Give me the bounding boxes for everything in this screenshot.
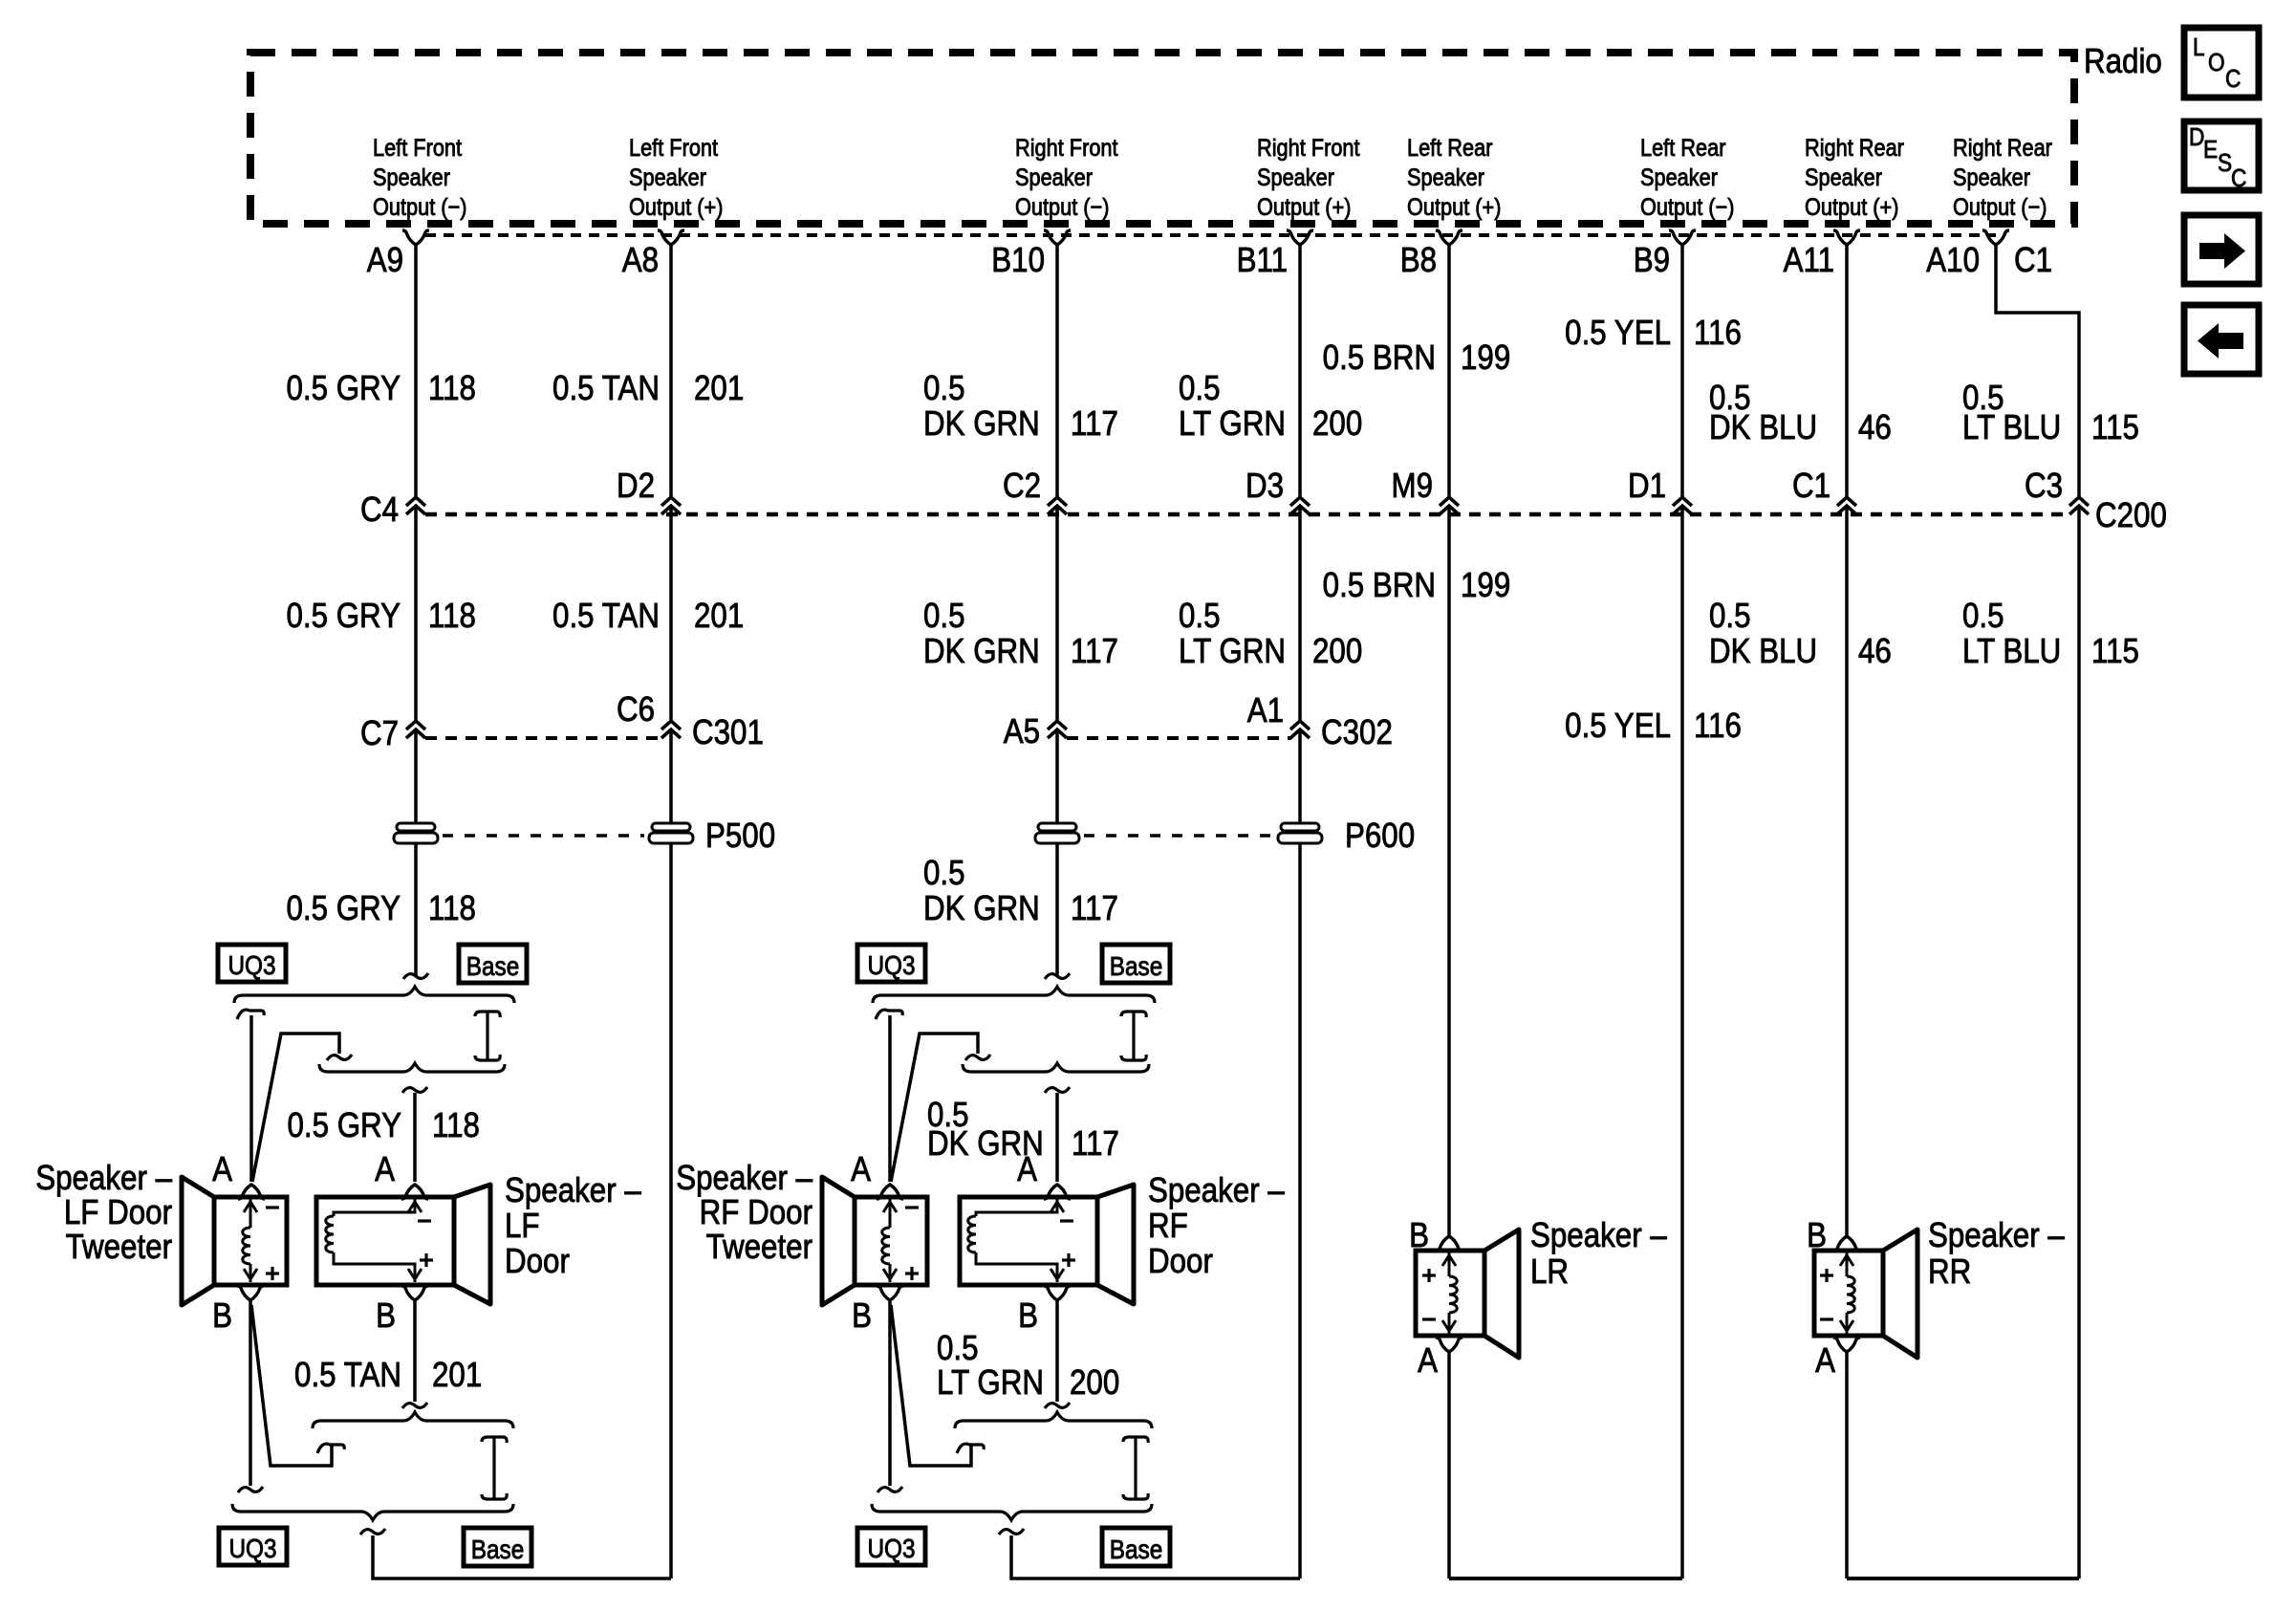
option box Base	[1102, 945, 1170, 983]
svg-text:117: 117	[1071, 404, 1118, 444]
svg-text:0.5 TAN: 0.5 TAN	[552, 369, 660, 408]
radio output pin forks	[402, 230, 429, 245]
wire A10 0.5 LT BLU 115 upper segment with jog	[1996, 245, 2079, 496]
svg-text:C1: C1	[2014, 241, 2052, 280]
jumper tweeter A to door feed	[252, 1034, 339, 1182]
svg-text:Speaker –: Speaker –	[505, 1171, 641, 1210]
svg-text:Speaker: Speaker	[1407, 164, 1484, 191]
door speaker terminal B fork	[1044, 1286, 1071, 1300]
svg-text:B9: B9	[1634, 241, 1670, 280]
svg-text:UQ3: UQ3	[867, 1533, 915, 1563]
tweeter B return wire	[888, 1301, 892, 1486]
svg-text:115: 115	[2091, 408, 2139, 447]
svg-text:Base: Base	[1110, 1534, 1163, 1564]
svg-text:0.5: 0.5	[923, 597, 965, 636]
svg-text:0.5 YEL: 0.5 YEL	[1565, 707, 1671, 746]
svg-text:RF Door: RF Door	[700, 1193, 812, 1232]
options brace upper	[234, 987, 514, 1003]
jumper tweeter A to door feed	[891, 1034, 978, 1182]
wire A11 lower segment to RR speaker	[1845, 506, 1849, 1236]
svg-text:117: 117	[1071, 632, 1118, 671]
svg-text:0.5 BRN: 0.5 BRN	[1323, 338, 1436, 378]
return options brace upper	[955, 1412, 1152, 1428]
svg-text:C4: C4	[360, 490, 399, 530]
svg-text:0.5: 0.5	[1709, 597, 1751, 636]
svg-text:DK BLU: DK BLU	[1709, 632, 1817, 671]
svg-text:115: 115	[2091, 632, 2139, 671]
svg-text:Speaker: Speaker	[1953, 164, 2030, 191]
svg-text:46: 46	[1858, 408, 1892, 447]
radio harness connector dashed line	[425, 233, 1996, 237]
speaker LR terminal A fork	[1436, 1338, 1462, 1352]
svg-text:C7: C7	[360, 714, 399, 753]
svg-text:201: 201	[694, 597, 744, 636]
svg-text:B: B	[212, 1296, 232, 1336]
svg-text:46: 46	[1858, 632, 1892, 671]
svg-text:0.5 GRY: 0.5 GRY	[286, 369, 401, 408]
svg-text:P600: P600	[1345, 816, 1415, 856]
return options brace upper	[313, 1412, 513, 1428]
svg-text:199: 199	[1461, 338, 1510, 378]
svg-text:Tweeter: Tweeter	[66, 1228, 172, 1267]
svg-text:Right Front: Right Front	[1257, 135, 1360, 162]
svg-text:LT GRN: LT GRN	[1179, 632, 1286, 671]
svg-text:Base: Base	[1110, 950, 1163, 981]
svg-text:A9: A9	[367, 241, 403, 280]
svg-text:Left Front: Left Front	[629, 135, 719, 162]
svg-text:Radio: Radio	[2084, 42, 2162, 81]
wire A8 0.5 TAN 201 upper segment	[669, 245, 673, 496]
svg-text:LR: LR	[1530, 1252, 1569, 1292]
svg-text:UQ3: UQ3	[227, 949, 275, 980]
wire B11 0.5 LT GRN 200 upper segment	[1298, 245, 1302, 496]
connector C302 dashed line	[1067, 736, 1291, 740]
svg-text:Base: Base	[466, 950, 520, 981]
C302 chevron A1	[1290, 721, 1310, 729]
C302 chevron A5	[1048, 721, 1067, 729]
svg-text:Output (+): Output (+)	[1805, 194, 1898, 221]
option box Base lower	[464, 1528, 531, 1566]
grommet P500 right	[652, 823, 690, 831]
svg-text:C: C	[2231, 165, 2246, 193]
svg-text:0.5 TAN: 0.5 TAN	[294, 1356, 401, 1395]
DESC legend box	[2184, 121, 2259, 190]
option box UQ3 lower	[219, 1528, 287, 1565]
voice coil path	[334, 1197, 415, 1216]
svg-text:A: A	[1815, 1341, 1835, 1381]
svg-text:Output (+): Output (+)	[1407, 194, 1501, 221]
option box UQ3	[857, 945, 925, 982]
svg-text:C3: C3	[2025, 467, 2063, 506]
svg-text:Speaker: Speaker	[629, 164, 706, 191]
door speaker feed wire	[402, 1087, 427, 1093]
svg-text:D1: D1	[1628, 467, 1666, 506]
svg-text:0.5: 0.5	[923, 854, 965, 893]
backward arrow box	[2184, 305, 2259, 374]
Base option dead-end link lower	[492, 1437, 495, 1499]
return wire to radio	[373, 1535, 671, 1578]
svg-text:200: 200	[1070, 1363, 1119, 1403]
svg-text:A: A	[212, 1150, 232, 1189]
svg-text:200: 200	[1312, 404, 1362, 444]
svg-text:Output (−): Output (−)	[1640, 194, 1734, 221]
options brace lower	[319, 1063, 505, 1072]
svg-text:116: 116	[1694, 707, 1742, 746]
jumper tweeter B to return path	[251, 1305, 332, 1466]
wire segments C301 to P500	[414, 729, 418, 976]
LOC legend box	[2184, 28, 2259, 98]
svg-text:0.5 BRN: 0.5 BRN	[1323, 566, 1436, 605]
svg-text:117: 117	[1071, 889, 1118, 928]
svg-text:M9: M9	[1391, 467, 1433, 506]
svg-text:DK GRN: DK GRN	[923, 632, 1040, 671]
return options brace lower	[232, 1504, 513, 1520]
svg-text:201: 201	[432, 1356, 482, 1395]
svg-text:0.5 GRY: 0.5 GRY	[287, 1106, 401, 1145]
speaker RR cone	[1883, 1230, 1917, 1358]
wire A11 0.5 DK BLU 46 upper segment	[1845, 245, 1849, 496]
C200 pin chevrons	[406, 497, 425, 506]
svg-text:C: C	[2225, 66, 2241, 94]
Base option dead-end link	[486, 1012, 488, 1060]
svg-text:201: 201	[694, 369, 744, 408]
svg-text:0.5 GRY: 0.5 GRY	[286, 889, 401, 928]
svg-text:Left Rear: Left Rear	[1640, 135, 1726, 162]
svg-text:LT GRN: LT GRN	[1179, 404, 1286, 444]
svg-text:L: L	[2193, 34, 2205, 62]
return wire to radio	[1011, 1535, 1300, 1578]
svg-text:Output (−): Output (−)	[373, 194, 466, 221]
svg-text:0.5: 0.5	[1962, 597, 2004, 636]
svg-text:117: 117	[1072, 1124, 1119, 1164]
svg-text:0.5: 0.5	[923, 369, 965, 408]
speaker RF Door body	[960, 1197, 1097, 1285]
svg-text:O: O	[2208, 50, 2225, 77]
door B return wire	[1055, 1301, 1059, 1402]
UQ3 option wire to tweeter	[237, 1010, 264, 1019]
grommet P500 left	[397, 823, 435, 831]
terminal B fork	[877, 1286, 903, 1300]
wire segments C200 to C301/C302 and beyond	[414, 506, 418, 720]
Base option dead-end link lower	[1134, 1437, 1137, 1499]
RR speaker bottom loop	[1845, 1352, 1849, 1578]
speaker RR terminal B fork	[1833, 1236, 1860, 1251]
svg-text:Base: Base	[471, 1534, 525, 1564]
svg-text:118: 118	[432, 1106, 480, 1145]
wire B8 lower segment to LR speaker	[1447, 506, 1451, 1236]
svg-text:D3: D3	[1245, 467, 1284, 506]
svg-text:Speaker –: Speaker –	[1148, 1171, 1285, 1210]
svg-text:200: 200	[1312, 632, 1362, 671]
svg-text:D2: D2	[617, 467, 655, 506]
door speaker terminal B fork	[401, 1286, 428, 1300]
options brace lower	[963, 1063, 1149, 1072]
wire B8 0.5 BRN 199 upper segment	[1447, 245, 1451, 496]
svg-text:A11: A11	[1784, 241, 1834, 280]
svg-text:0.5 TAN: 0.5 TAN	[552, 597, 660, 636]
svg-text:A8: A8	[622, 241, 659, 280]
svg-text:C301: C301	[692, 713, 764, 752]
wire A9 0.5 GRY 118 upper segment	[414, 245, 418, 496]
speaker RR body	[1814, 1251, 1883, 1336]
svg-text:Tweeter: Tweeter	[706, 1228, 812, 1267]
svg-text:RR: RR	[1928, 1252, 1971, 1292]
Base option dead-end link	[1132, 1012, 1135, 1060]
svg-text:0.5: 0.5	[1179, 597, 1221, 636]
svg-text:0.5 GRY: 0.5 GRY	[286, 597, 401, 636]
wire B10 0.5 DK GRN 117 upper segment	[1055, 245, 1059, 496]
options brace upper	[873, 987, 1155, 1003]
door B return wire	[413, 1301, 417, 1402]
svg-text:E: E	[2203, 137, 2218, 164]
svg-text:Right Rear: Right Rear	[1805, 135, 1904, 162]
svg-text:RF: RF	[1148, 1207, 1188, 1246]
svg-text:Output (−): Output (−)	[1953, 194, 2047, 221]
connector C301 dashed line	[425, 736, 662, 740]
svg-text:118: 118	[428, 369, 476, 408]
svg-text:Output (+): Output (+)	[629, 194, 723, 221]
speaker RF Door cone	[1097, 1185, 1134, 1304]
svg-text:S: S	[2218, 150, 2232, 178]
speaker Tweeter cone	[822, 1177, 855, 1305]
jumper tweeter B to return path	[891, 1305, 971, 1466]
svg-text:A10: A10	[1926, 241, 1980, 280]
voice coil	[249, 1197, 252, 1228]
svg-text:Speaker –: Speaker –	[35, 1159, 172, 1198]
svg-text:0.5: 0.5	[1179, 369, 1221, 408]
speaker RR terminal A fork	[1833, 1338, 1860, 1352]
option box Base	[459, 945, 527, 983]
voice coil	[889, 1197, 892, 1228]
svg-text:C200: C200	[2095, 496, 2167, 535]
svg-text:B10: B10	[991, 241, 1045, 280]
forward arrow box	[2184, 215, 2259, 284]
speaker LR cone	[1484, 1230, 1519, 1358]
wire B9 0.5 YEL 116 upper segment	[1680, 245, 1684, 496]
grommet P600 right	[1281, 823, 1319, 831]
svg-text:LF: LF	[505, 1207, 540, 1246]
svg-text:116: 116	[1694, 314, 1742, 353]
svg-text:199: 199	[1461, 566, 1510, 605]
svg-text:LF Door: LF Door	[64, 1193, 172, 1232]
svg-text:LT BLU: LT BLU	[1962, 632, 2061, 671]
svg-text:P500: P500	[705, 816, 775, 856]
svg-text:A: A	[1017, 1150, 1037, 1189]
svg-text:A5: A5	[1004, 712, 1040, 751]
radio dashed outline box	[250, 53, 2074, 224]
svg-text:Right Rear: Right Rear	[1953, 135, 2052, 162]
grommet P600 dashed link	[1084, 834, 1273, 838]
svg-text:Speaker –: Speaker –	[676, 1159, 812, 1198]
tweeter B return wire	[249, 1301, 252, 1486]
svg-text:Output (−): Output (−)	[1015, 194, 1109, 221]
svg-text:B: B	[852, 1296, 872, 1336]
svg-text:Speaker: Speaker	[373, 164, 450, 191]
svg-text:A: A	[851, 1150, 871, 1189]
svg-text:C6: C6	[617, 690, 655, 729]
svg-text:B11: B11	[1237, 241, 1288, 280]
svg-text:0.5: 0.5	[937, 1329, 979, 1368]
speaker Tweeter cone	[182, 1177, 214, 1305]
speaker Tweeter body	[855, 1197, 927, 1285]
svg-text:LT GRN: LT GRN	[937, 1363, 1044, 1403]
svg-text:DK GRN: DK GRN	[923, 404, 1040, 444]
voice coil	[1846, 1251, 1849, 1276]
svg-text:Output (+): Output (+)	[1257, 194, 1351, 221]
option box UQ3	[218, 945, 286, 982]
svg-text:Speaker: Speaker	[1257, 164, 1334, 191]
svg-text:A: A	[375, 1150, 395, 1189]
svg-text:C2: C2	[1003, 467, 1041, 506]
svg-text:C1: C1	[1792, 467, 1830, 506]
svg-text:Door: Door	[1148, 1242, 1213, 1281]
svg-text:Speaker: Speaker	[1640, 164, 1718, 191]
svg-text:0.5 YEL: 0.5 YEL	[1565, 314, 1671, 353]
LR speaker bottom loop	[1447, 1352, 1451, 1578]
svg-text:Speaker: Speaker	[1805, 164, 1882, 191]
svg-text:D: D	[2189, 124, 2204, 152]
svg-text:Speaker –: Speaker –	[1530, 1216, 1667, 1255]
svg-text:DK BLU: DK BLU	[1709, 408, 1817, 447]
grommet P600 left	[1038, 823, 1076, 831]
option box Base lower	[1102, 1528, 1170, 1566]
svg-text:Door: Door	[505, 1242, 570, 1281]
voice coil	[1448, 1251, 1451, 1276]
UQ3 option wire to tweeter	[876, 1010, 902, 1019]
C301 chevron C7	[406, 721, 425, 729]
svg-text:LT BLU: LT BLU	[1962, 408, 2061, 447]
speaker LF Door body	[316, 1197, 454, 1285]
svg-text:UQ3: UQ3	[228, 1533, 276, 1563]
terminal B fork	[237, 1286, 264, 1300]
svg-text:Left Rear: Left Rear	[1407, 135, 1493, 162]
option box UQ3 lower	[857, 1528, 925, 1565]
svg-text:DK GRN: DK GRN	[923, 889, 1040, 928]
svg-text:A1: A1	[1247, 691, 1284, 730]
svg-text:B8: B8	[1400, 241, 1437, 280]
return options brace lower	[872, 1504, 1152, 1520]
svg-text:118: 118	[428, 889, 476, 928]
svg-text:Speaker: Speaker	[1015, 164, 1093, 191]
speaker Tweeter body	[214, 1197, 287, 1285]
wire end squiggle col3	[1045, 973, 1070, 979]
svg-text:Speaker –: Speaker –	[1928, 1216, 2065, 1255]
svg-text:B: B	[376, 1296, 396, 1336]
speaker LR body	[1416, 1251, 1484, 1336]
wire B9 lower segment to rear loop	[1680, 506, 1684, 1578]
svg-text:Right Front: Right Front	[1015, 135, 1118, 162]
svg-text:118: 118	[428, 597, 476, 636]
svg-text:B: B	[1018, 1296, 1038, 1336]
door speaker feed wire	[1045, 1087, 1070, 1093]
voice coil path	[976, 1197, 1057, 1216]
svg-text:Left Front: Left Front	[373, 135, 463, 162]
wire LT BLU lower segment right side	[2077, 506, 2081, 1578]
speaker LF Door cone	[454, 1185, 490, 1304]
speaker LR terminal B fork	[1436, 1236, 1462, 1251]
grommet P500 dashed link	[443, 834, 644, 838]
svg-text:UQ3: UQ3	[867, 949, 915, 980]
C301 chevron C6	[661, 721, 681, 729]
svg-text:A: A	[1418, 1341, 1438, 1381]
connector C200 dashed line	[425, 512, 2070, 517]
svg-text:C302: C302	[1321, 713, 1393, 752]
wire end squiggle col1	[403, 973, 428, 979]
